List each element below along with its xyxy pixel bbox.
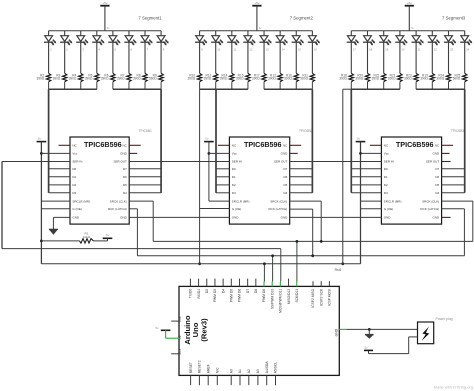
LED LED14 [276, 31, 288, 74]
svg-text:13: 13 [266, 48, 269, 52]
svg-text:D3: D3 [384, 191, 388, 195]
svg-text:D5: D5 [283, 183, 287, 187]
resistor R5 390Ω [95, 73, 99, 81]
LED LED15 [292, 31, 304, 74]
junction RCK bus / U2 [311, 254, 314, 257]
wire: segment merge bus right (bank 1) [113, 88, 161, 90]
wire SRCK clock bus [153, 240, 473, 242]
wire Vcc pin U3 [361, 152, 382, 154]
power +5V symbol at U2 [204, 137, 214, 142]
svg-text:390Ω: 390Ω [85, 77, 93, 81]
IC U3 TPIC6B596 shift register (body) [381, 137, 441, 224]
svg-text:390Ω: 390Ω [133, 77, 141, 81]
svg-text:7 Segment3: 7 Segment3 [442, 16, 466, 21]
wire 5V riser U2 [208, 142, 210, 202]
svg-text:390Ω: 390Ω [236, 77, 244, 81]
resistor R8 390Ω [143, 73, 147, 81]
pin NC right U3 [442, 144, 454, 146]
power plug J1 body [418, 322, 434, 344]
svg-text:D1: D1 [384, 175, 388, 179]
svg-text:D4: D4 [221, 289, 225, 293]
LED LED24 [460, 31, 472, 74]
pin SS/PWM D10 [271, 282, 273, 287]
svg-text:GND: GND [72, 216, 80, 220]
LED LED11 [227, 31, 239, 74]
node: anode bus wire (bank 1) [49, 30, 161, 32]
junction Vcc U1 [40, 152, 43, 155]
svg-text:SRCK (CLK): SRCK (CLK) [270, 199, 287, 203]
wire: bank3 aux riser to OE bus [342, 89, 344, 264]
pin NC right U1 [129, 144, 141, 146]
svg-text:390Ω: 390Ω [436, 77, 444, 81]
wire G(OE) pin U3 [361, 208, 382, 210]
wire 5V riser U1 (Vcc, SRCLR, OE/R1 net) [40, 142, 42, 264]
wire GND U1-right to GND U2-left [129, 216, 229, 218]
svg-text:17: 17 [353, 48, 356, 52]
svg-text:TPIC6B2: TPIC6B2 [299, 129, 313, 133]
junction OE bus U2 [198, 262, 201, 265]
resistor R12 390Ω [214, 73, 218, 81]
wire resistor to merge bus [112, 82, 114, 89]
wire resistor to merge bus [96, 82, 98, 89]
resistor R17 390Ω [262, 73, 266, 81]
wire Vcc pin U2 [209, 152, 230, 154]
pin D8 [255, 279, 257, 287]
svg-text:A5/SCL: A5/SCL [274, 362, 278, 374]
power +5V symbol at plug [364, 346, 373, 351]
svg-text:D6: D6 [283, 175, 287, 179]
svg-text:D7: D7 [283, 167, 287, 171]
svg-text:D4: D4 [283, 191, 287, 195]
svg-text:390Ω: 390Ω [372, 77, 380, 81]
resistor R22 390Ω [382, 73, 386, 81]
svg-text:3V3: 3V3 [178, 349, 182, 355]
svg-text:390Ω: 390Ω [284, 77, 292, 81]
svg-text:23: 23 [450, 48, 453, 52]
resistor R25 560Ω [463, 73, 467, 81]
wire: segment merge bus left (bank 1) [49, 88, 97, 90]
LED LED23 [444, 31, 456, 74]
pin NC left U2 [218, 144, 230, 146]
svg-text:RESET: RESET [189, 362, 193, 373]
pin D2 [206, 279, 208, 287]
wire resistor to merge bus [311, 82, 313, 89]
resistor R3 390Ω [62, 73, 66, 81]
wire OE bus [41, 263, 360, 265]
pin N/C [216, 375, 218, 385]
wire SER IN U1 from far-left riser [2, 161, 70, 163]
svg-text:PWM D9: PWM D9 [262, 289, 266, 302]
svg-text:390Ω: 390Ω [53, 77, 61, 81]
svg-text:21: 21 [418, 48, 421, 52]
svg-text:SER IN: SER IN [384, 160, 394, 164]
pin ICSP MOSI [328, 281, 330, 286]
wire resistor to merge bus [448, 82, 450, 89]
pin SCK/D13 [296, 282, 298, 287]
wire resistor to merge bus [279, 82, 281, 89]
LED LED17 [347, 31, 359, 74]
svg-text:AREF: AREF [206, 364, 210, 373]
wire resistor to merge bus [383, 82, 385, 89]
power +5V supply symbol (7-segment bank 1) [100, 1, 110, 31]
node: anode bus wire (bank 2) [200, 30, 313, 32]
pin PWM D9 [263, 282, 265, 287]
pin MOSI/PWM D11 [279, 282, 281, 287]
wire SRCLR pin U1 [41, 200, 70, 202]
svg-text:SS/PWM D10: SS/PWM D10 [270, 289, 274, 310]
pin PWM D5 [230, 279, 232, 287]
pin A0 [230, 375, 232, 385]
svg-text:560Ω: 560Ω [149, 77, 157, 81]
pin NC left U3 [370, 144, 382, 146]
svg-text:+5v: +5v [407, 1, 412, 5]
wire resistor to merge bus [431, 82, 433, 89]
svg-text:D4: D4 [123, 191, 127, 195]
svg-text:GND: GND [433, 152, 441, 156]
pin TX/D0 [189, 279, 191, 287]
wire: segment merge bus right (bank 2) [264, 88, 312, 90]
svg-text:Power plug: Power plug [436, 317, 453, 321]
pin MISO/D12 [288, 279, 290, 287]
svg-text:N/C: N/C [216, 367, 220, 373]
svg-text:20: 20 [402, 48, 405, 52]
svg-text:15: 15 [298, 48, 301, 52]
svg-text:GND: GND [232, 216, 240, 220]
wire resistor to merge bus [48, 82, 50, 89]
pin VIN [171, 320, 179, 322]
power +5V symbol at R1 [103, 233, 113, 241]
resistor R9 560Ω [159, 73, 163, 81]
wire SER OUT U1 to SER IN U2 [129, 161, 229, 163]
svg-text:TPIC6B3: TPIC6B3 [451, 129, 465, 133]
svg-text:390Ω: 390Ω [69, 77, 77, 81]
resistor R4 390Ω [79, 73, 83, 81]
power +5V supply symbol (7-segment bank 2) [252, 1, 262, 31]
wire Vcc pin U1 [41, 152, 70, 154]
svg-text:PWM D6: PWM D6 [238, 289, 242, 302]
wire R1 right [94, 240, 108, 242]
svg-text:MOSI/PWM D11: MOSI/PWM D11 [279, 289, 283, 313]
svg-text:VIN: VIN [178, 316, 182, 322]
wire resistor to merge bus [295, 82, 297, 89]
pin GND right (unconnected) U1 [129, 152, 137, 154]
svg-text:SCK/D13: SCK/D13 [295, 289, 299, 303]
pin D7 [247, 279, 249, 287]
svg-text:G (OE): G (OE) [384, 207, 394, 211]
svg-text:TPIC6B596: TPIC6B596 [84, 140, 122, 149]
svg-text:SRCK (CLK): SRCK (CLK) [110, 199, 127, 203]
svg-text:RCK (LATCH): RCK (LATCH) [108, 207, 127, 211]
wire: resistor bank vert to D0-D3 (U2) [215, 89, 217, 193]
svg-text:390Ω: 390Ω [187, 77, 195, 81]
pin RX/D1 [198, 279, 200, 287]
junction OE bus / D9 [263, 262, 266, 265]
svg-text:TX/D0: TX/D0 [189, 289, 193, 299]
ground symbol (power) [368, 329, 370, 334]
LED LED2 [60, 31, 72, 74]
svg-text:D3: D3 [232, 191, 236, 195]
svg-text:390Ω: 390Ω [420, 77, 428, 81]
resistor R13 390Ω [278, 73, 282, 81]
junction GND / ground symbol [368, 328, 371, 331]
svg-text:10kΩ: 10kΩ [83, 235, 91, 239]
svg-text:24: 24 [466, 48, 469, 52]
pin SER OUT U3 stub (n/c) [442, 161, 451, 163]
svg-text:RCK (LATCH): RCK (LATCH) [269, 207, 288, 211]
svg-text:12: 12 [250, 48, 253, 52]
svg-text:A1: A1 [238, 369, 242, 373]
wire 5V green [165, 330, 167, 338]
svg-text:SRCLR (MR): SRCLR (MR) [384, 199, 402, 203]
svg-text:GND: GND [384, 216, 392, 220]
svg-text:A2: A2 [247, 369, 251, 373]
wire: segment merge bus left (bank 2) [200, 88, 248, 90]
svg-text:19: 19 [385, 48, 388, 52]
LED LED16 [308, 31, 320, 74]
svg-text:ICSP MOSI: ICSP MOSI [328, 289, 332, 306]
wire PWM D9 riser [263, 264, 265, 282]
svg-text:GND: GND [120, 216, 128, 220]
svg-text:+5v: +5v [254, 1, 259, 5]
wire resistor to merge bus [415, 82, 417, 89]
svg-text:+5v: +5v [102, 1, 107, 5]
svg-text:D4: D4 [435, 191, 439, 195]
resistor R11 560Ω [310, 73, 314, 81]
LED LED18 [363, 31, 375, 74]
svg-text:A0: A0 [229, 369, 233, 373]
pin A2 [248, 375, 250, 385]
wire resistor to merge bus [144, 82, 146, 89]
svg-text:560Ω: 560Ω [453, 77, 461, 81]
svg-text:560Ω: 560Ω [300, 77, 308, 81]
svg-text:D2: D2 [72, 183, 76, 187]
svg-text:390Ω: 390Ω [268, 77, 276, 81]
svg-text:D1: D1 [72, 175, 76, 179]
svg-text:D7: D7 [123, 167, 127, 171]
ground symbol (U1) [49, 228, 58, 230]
LED LED8 [156, 31, 168, 74]
svg-text:ICSP2 MISO: ICSP2 MISO [311, 288, 315, 307]
junction Vcc U2 [208, 152, 211, 155]
svg-text:10: 10 [217, 48, 220, 52]
power +5V symbol to Arduino 5V pin [156, 326, 171, 330]
wire serial data bus (to D11) [2, 248, 281, 250]
wire R1 left [41, 240, 79, 242]
wire SRCK U2 riser (to ICSP2 SCK) [290, 200, 322, 202]
svg-text:14: 14 [282, 48, 285, 52]
power +5V supply symbol (7-segment bank 3) [405, 1, 415, 31]
svg-text:16: 16 [314, 48, 317, 52]
svg-text:PWM D5: PWM D5 [230, 289, 234, 302]
junction R1 node [40, 240, 43, 243]
wire SRCK U1 [129, 200, 153, 202]
pin ICSP2 SCK [320, 281, 322, 286]
wire MOSI/D11 riser [280, 249, 282, 282]
junction aux riser OE bus [341, 262, 344, 265]
svg-text:SRCK (CLK): SRCK (CLK) [422, 199, 439, 203]
pin 3V3 [171, 353, 179, 355]
wire resistor to merge bus [215, 82, 217, 89]
svg-text:D5: D5 [435, 183, 439, 187]
pin GND U3 right stub (n/c) [442, 216, 451, 218]
LED LED1 [44, 31, 56, 74]
svg-text:D8: D8 [254, 289, 258, 293]
resistor R15 390Ω [246, 73, 250, 81]
svg-text:D6: D6 [123, 175, 127, 179]
pin PWM D3 [214, 279, 216, 287]
svg-text:G (OE): G (OE) [232, 207, 242, 211]
LED LED21 [412, 31, 424, 74]
pin A4/SDA [266, 375, 268, 385]
wire G(OE) U2 riser down to OE bus [200, 208, 230, 210]
svg-text:Vcc: Vcc [384, 152, 390, 156]
LED LED9 [195, 31, 207, 74]
wire GND from Arduino to power plug [339, 328, 346, 330]
svg-text:Vcc: Vcc [232, 152, 238, 156]
svg-text:18: 18 [369, 48, 372, 52]
svg-text:D2: D2 [232, 183, 236, 187]
svg-text:390Ω: 390Ω [252, 77, 260, 81]
junction Vcc U3 [359, 152, 362, 155]
svg-text:D3: D3 [72, 191, 76, 195]
svg-text:390Ω: 390Ω [404, 77, 412, 81]
IC U1 TPIC6B596 shift register (body) [70, 137, 129, 224]
LED LED13 [259, 31, 271, 74]
wire SER OUT U2 to SER IN U3 [290, 161, 382, 163]
pin A1 [239, 375, 241, 385]
wire RCK U1 [129, 208, 137, 210]
resistor R20 390Ω [365, 73, 369, 81]
wire: segment merge bus left (bank 3) [351, 88, 400, 90]
svg-text:MISO/D12: MISO/D12 [287, 289, 291, 305]
wire resistor to merge bus [350, 82, 352, 89]
wire: resistor bank vert to D0-D3 (U3) [350, 89, 352, 193]
svg-text:Rst1: Rst1 [335, 268, 342, 272]
resistor R24 390Ω [446, 73, 450, 81]
svg-text:Vcc: Vcc [72, 152, 78, 156]
wire resistor to merge bus [399, 82, 401, 89]
svg-text:SER IN: SER IN [232, 160, 242, 164]
svg-text:GND: GND [334, 328, 338, 336]
svg-text:22: 22 [434, 48, 437, 52]
LED LED19 [379, 31, 391, 74]
Arduino Uno (Rev3) body [179, 286, 339, 375]
LED LED12 [243, 31, 255, 74]
wire RCK latch bus [137, 255, 464, 257]
svg-text:PWM D3: PWM D3 [213, 289, 217, 302]
svg-text:D7: D7 [246, 289, 250, 293]
svg-text:TPIC6B596: TPIC6B596 [244, 140, 282, 149]
resistor R7 390Ω [127, 73, 131, 81]
svg-text:GND: GND [433, 216, 441, 220]
LED LED20 [395, 31, 407, 74]
LED LED6 [124, 31, 136, 74]
svg-text:390Ω: 390Ω [220, 77, 228, 81]
svg-text:A4/SDA: A4/SDA [265, 361, 269, 374]
svg-text:ICSP2 SCK: ICSP2 SCK [319, 288, 323, 306]
wire SCK/D13 riser [296, 241, 298, 281]
resistor R23 390Ω [414, 73, 418, 81]
svg-text:G (OE): G (OE) [72, 207, 82, 211]
wire: resistor bank vert to D7-D4 (U2) [311, 89, 313, 193]
wire GND U2-right to GND U3-left [290, 216, 382, 218]
wire SRCK U3 [442, 200, 473, 202]
resistor R14 390Ω [230, 73, 234, 81]
svg-text:TPIC6B1: TPIC6B1 [139, 129, 153, 133]
LED LED22 [428, 31, 440, 74]
wire resistor to merge bus [367, 82, 369, 89]
pin PWM D6 [238, 279, 240, 287]
pin RESET2 [198, 375, 200, 385]
wire resistor to merge bus [160, 82, 162, 89]
svg-text:Made with Fritzing.org: Made with Fritzing.org [434, 385, 473, 390]
svg-text:D0: D0 [384, 167, 388, 171]
IC U2 TPIC6B596 shift register (body) [229, 137, 289, 224]
svg-text:(Rev3): (Rev3) [200, 318, 209, 342]
svg-text:SER IN: SER IN [72, 160, 82, 164]
wire RCK U3 [442, 208, 465, 210]
wire: resistor bank vert to D0-D3 (U1) [48, 89, 50, 193]
svg-text:A3: A3 [256, 369, 260, 373]
svg-text:D5: D5 [123, 183, 127, 187]
svg-text:RESET2: RESET2 [198, 360, 202, 373]
wire 5V riser U3 (Vcc, SRCLR, OE) [360, 142, 362, 264]
svg-text:TPIC6B596: TPIC6B596 [396, 140, 434, 149]
pin GND right (unconnected) U3 [442, 152, 450, 154]
wire GND pin U1 to ground [53, 216, 70, 218]
junction SRCK bus / U2 [320, 240, 323, 243]
wire: segment merge bus right (bank 3) [416, 88, 465, 90]
svg-text:390Ω: 390Ω [339, 77, 347, 81]
svg-text:390Ω: 390Ω [388, 77, 396, 81]
svg-text:SRCLR (MR): SRCLR (MR) [232, 199, 250, 203]
power +5V symbol at U3 [356, 137, 366, 142]
svg-text:GND: GND [281, 152, 289, 156]
pin D4 [222, 279, 224, 287]
wire resistor to merge bus [199, 82, 201, 89]
svg-text:390Ω: 390Ω [355, 77, 363, 81]
svg-text:GND: GND [281, 216, 289, 220]
svg-text:D6: D6 [435, 175, 439, 179]
pin RESET [190, 375, 192, 385]
svg-text:7 Segment1: 7 Segment1 [138, 16, 162, 21]
wire G(OE) pin U1 [41, 208, 70, 210]
LED LED4 [92, 31, 104, 74]
svg-text:390Ω: 390Ω [204, 77, 212, 81]
svg-text:390Ω: 390Ω [36, 77, 44, 81]
svg-text:D0: D0 [72, 167, 76, 171]
wire resistor to merge bus [464, 82, 466, 89]
pin NC left U1 [59, 144, 71, 146]
svg-text:SER OUT: SER OUT [426, 160, 440, 164]
pin ICSP2 MISO [312, 281, 314, 286]
wire resistor to merge bus [80, 82, 82, 89]
svg-text:SER OUT: SER OUT [113, 160, 127, 164]
wire power plug pin2 to +5V [409, 336, 418, 338]
junction RCK bus / D10 [271, 254, 274, 257]
wire SRCLR pin U3 [361, 200, 382, 202]
LED LED5 [108, 31, 120, 74]
svg-text:D0: D0 [232, 167, 236, 171]
pin NC right U2 [290, 144, 302, 146]
junction SRCK bus / D13 [296, 240, 299, 243]
wire resistor to merge bus [247, 82, 249, 89]
svg-text:SER OUT: SER OUT [274, 160, 288, 164]
resistor R16 390Ω [294, 73, 298, 81]
LED LED7 [140, 31, 152, 74]
svg-text:D2: D2 [205, 289, 209, 293]
svg-text:GND: GND [120, 152, 128, 156]
